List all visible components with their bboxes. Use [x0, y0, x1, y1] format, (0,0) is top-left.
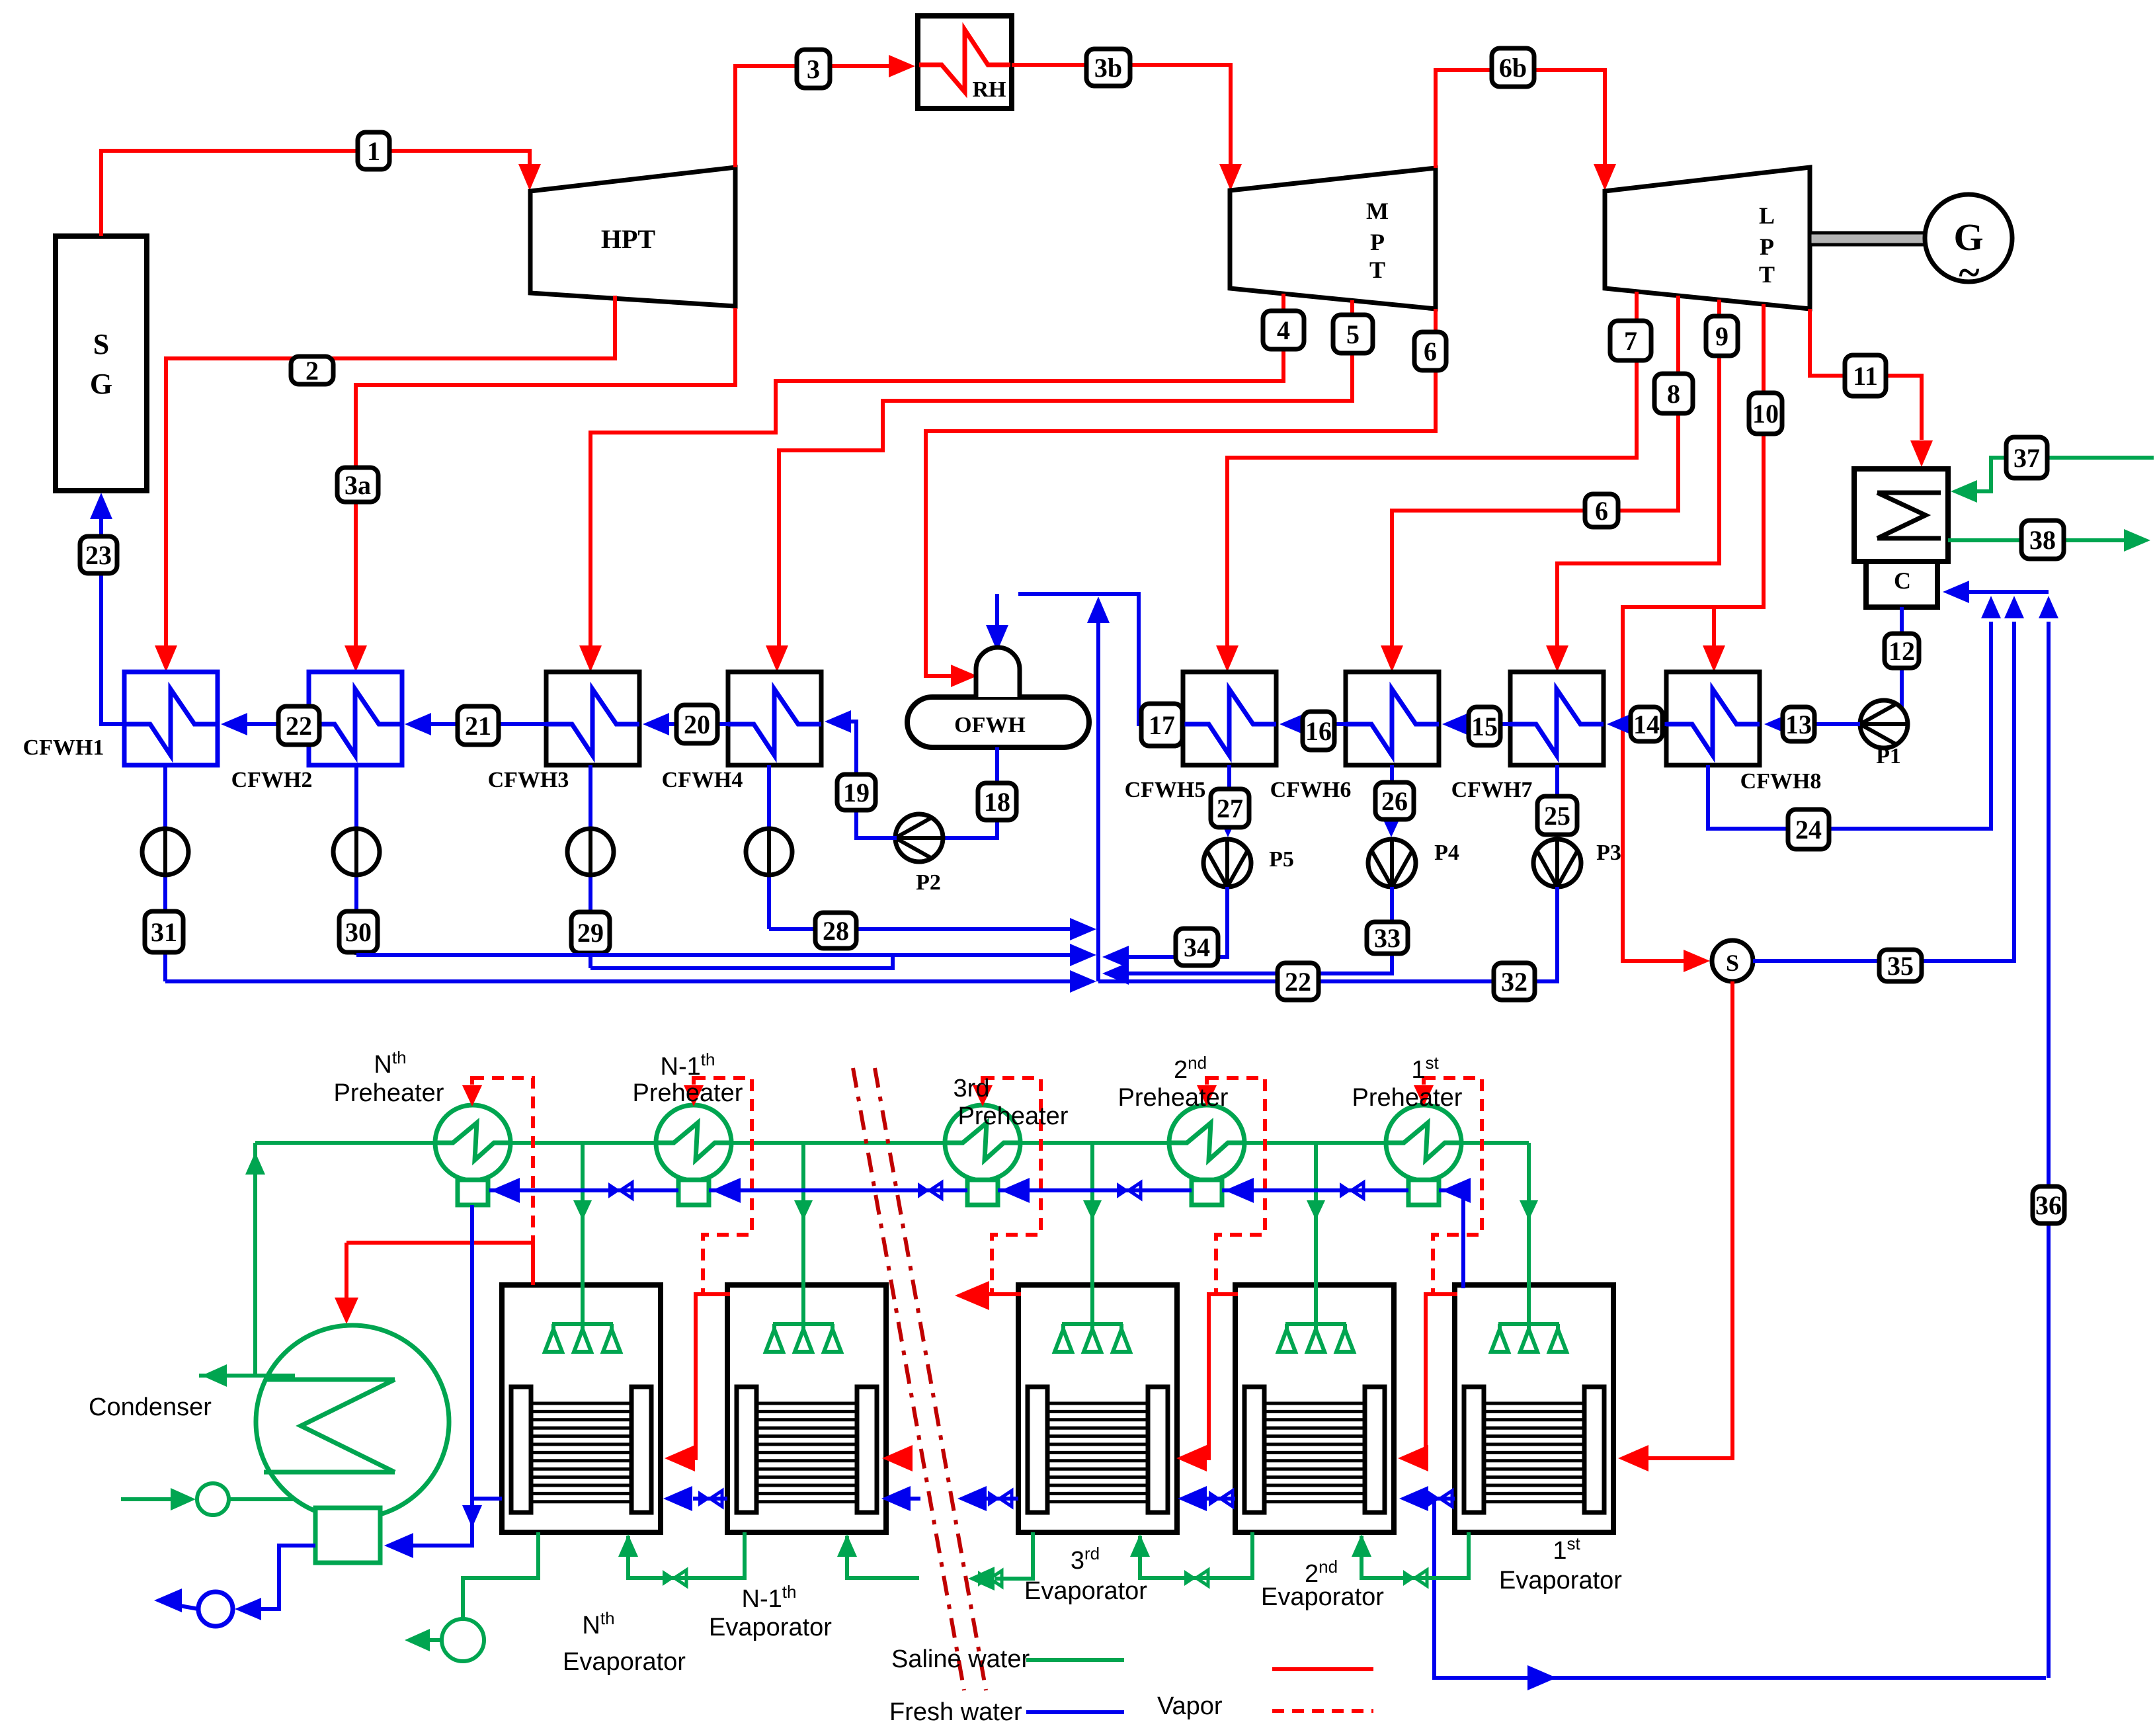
label 3rd Preheater [954, 1075, 1069, 1130]
valve fresh water header [918, 1182, 942, 1198]
svg-text:S: S [1726, 950, 1739, 976]
svg-text:13: 13 [1785, 710, 1812, 739]
svg-text:P3: P3 [1596, 841, 1621, 865]
label 10 [1749, 393, 1782, 434]
wire saline feed into Nth evaporator [545, 1143, 620, 1352]
arrow fresh water into N-1th preheater foot [712, 1178, 741, 1203]
svg-text:18: 18 [984, 787, 1010, 817]
splitter S [1712, 940, 1753, 981]
wire stream 16 CFWH6 to CFWH5 [1280, 713, 1346, 735]
pump P5 [1203, 839, 1294, 887]
vapor arrow into N-1th preheater [684, 1076, 704, 1106]
svg-text:P2: P2 [916, 870, 941, 895]
label 16 [1303, 712, 1334, 750]
svg-text:OFWH: OFWH [954, 713, 1026, 737]
svg-text:6: 6 [1595, 496, 1608, 526]
wire stream 7 LPT to CFWH5 [1216, 292, 1637, 672]
steam generator SG [56, 236, 147, 491]
wire stream 38 seawater out [1948, 529, 2150, 552]
svg-text:6: 6 [1424, 337, 1437, 366]
vapor dashed loop 2nd preheater [1207, 1078, 1265, 1294]
label 7 [1610, 321, 1651, 360]
svg-text:3rd: 3rd [954, 1075, 990, 1102]
label 6 [1414, 332, 1446, 370]
evaporator N-1th vessel [727, 1285, 886, 1532]
svg-text:RH: RH [973, 77, 1006, 102]
label Condenser [89, 1393, 212, 1421]
label 4 [1263, 311, 1304, 349]
svg-text:29: 29 [577, 918, 604, 948]
svg-text:CFWH5: CFWH5 [1125, 778, 1206, 802]
preheater Nth circle [435, 1105, 510, 1205]
condenser foot [315, 1508, 380, 1563]
svg-text:11: 11 [1853, 361, 1878, 391]
label 3a [337, 468, 378, 502]
heater CFWH2 [231, 672, 402, 792]
svg-text:P1: P1 [1876, 744, 1901, 768]
label 31 [145, 911, 183, 952]
svg-text:30: 30 [345, 917, 372, 947]
label 22 lower [1278, 963, 1319, 1000]
wire stream 35 S to condenser [1753, 596, 2024, 961]
label 3b [1086, 49, 1130, 86]
wire stream 11 LPT to condenser [1810, 309, 1933, 467]
vapor arrow into 2nd preheater [1197, 1076, 1217, 1106]
reheater RH [918, 16, 1012, 108]
valve fresh water header [1340, 1182, 1363, 1198]
wire vapor into next evaporator from N-1th preheater [665, 1294, 730, 1471]
preheater 1st circle [1386, 1105, 1461, 1205]
svg-text:Saline water: Saline water [891, 1645, 1030, 1673]
vapor arrow into Nth preheater [462, 1076, 482, 1106]
evaporator 2nd vessel [1235, 1285, 1394, 1532]
vapor arrow into 3rd preheater [973, 1076, 993, 1106]
svg-text:27: 27 [1217, 794, 1243, 823]
svg-text:P: P [1760, 233, 1774, 260]
heater CFWH1 [23, 672, 218, 765]
label 1st Preheater [1352, 1053, 1463, 1112]
wire OFWH top feed [986, 594, 1008, 651]
legend saline water [891, 1645, 1124, 1673]
heater CFWH7 [1451, 672, 1604, 802]
svg-text:Evaporator: Evaporator [1261, 1583, 1384, 1611]
svg-text:Vapor: Vapor [1157, 1692, 1223, 1720]
wire fresh water cascade 1st to 2nd [1399, 1486, 1455, 1511]
svg-text:S: S [93, 328, 109, 360]
label 3rd Evaporator [1024, 1544, 1147, 1605]
svg-text:21: 21 [465, 711, 491, 741]
evaporator 3rd vessel [1018, 1285, 1177, 1532]
label 19 [837, 774, 875, 810]
junction riser to OFWH line [1087, 597, 1110, 981]
wire stream 31 bus [165, 970, 1096, 993]
pump P1 [1860, 700, 1908, 768]
svg-text:10: 10 [1752, 399, 1779, 429]
wire stream 30 bus [356, 944, 1096, 966]
svg-text:31: 31 [151, 917, 177, 947]
wire stream 20 CFWH4 to CFWH3 [643, 713, 728, 735]
svg-text:7: 7 [1624, 326, 1637, 356]
svg-text:33: 33 [1374, 923, 1401, 953]
svg-text:C: C [1894, 567, 1911, 594]
wire vapor into next evaporator from 2nd preheater [1176, 1294, 1238, 1471]
vapor dashed loop 3rd preheater [983, 1078, 1041, 1294]
svg-text:28: 28 [823, 916, 849, 946]
wire stream 3a HPT to CFWH2 [345, 308, 735, 672]
label 11 [1845, 355, 1886, 396]
label 6 second [1585, 494, 1618, 527]
heater CFWH6 [1270, 672, 1439, 802]
wire vapor Nth evap riser and condenser feed [335, 1241, 533, 1324]
label 15 [1469, 707, 1500, 745]
label 2nd Preheater [1118, 1053, 1229, 1112]
wire stream 27 CFWH5 drain [1220, 765, 1236, 837]
condenser C box [1866, 561, 1937, 607]
svg-text:CFWH8: CFWH8 [1740, 769, 1822, 794]
svg-text:CFWH4: CFWH4 [662, 768, 743, 792]
label 27 [1211, 789, 1249, 827]
turbine LPT [1605, 167, 1810, 309]
wire vapor 3rd preheater to break [955, 1281, 1021, 1310]
svg-text:3b: 3b [1094, 53, 1122, 83]
drain CFWH1 valve [142, 765, 188, 981]
svg-text:Preheater: Preheater [334, 1079, 444, 1107]
svg-text:T: T [1369, 257, 1385, 283]
svg-text:38: 38 [2029, 525, 2056, 555]
wire brine 3rd evap to break [968, 1532, 1033, 1591]
svg-text:22: 22 [1285, 967, 1311, 997]
svg-text:35: 35 [1887, 951, 1914, 981]
wire stream 6 MPT to OFWH [926, 309, 1436, 687]
label 33 [1367, 922, 1408, 954]
wire stream 6b MPT to LPT [1436, 70, 1616, 190]
drain CFWH4 valve [746, 765, 792, 929]
svg-text:P4: P4 [1434, 841, 1459, 865]
wire stream 34 P5 to junction [1102, 887, 1227, 968]
label 17 [1141, 704, 1182, 746]
svg-text:15: 15 [1471, 712, 1498, 741]
wire stream 3b RH to MPT [1012, 65, 1242, 190]
label 38 [2021, 520, 2064, 559]
label 1st Evaporator [1499, 1534, 1622, 1594]
svg-text:Preheater: Preheater [633, 1079, 743, 1107]
label Nth Preheater [334, 1048, 444, 1107]
drain CFWH2 valve [333, 765, 380, 955]
svg-text:P5: P5 [1269, 847, 1294, 872]
svg-text:Evaporator: Evaporator [1499, 1567, 1622, 1594]
wire stream 1 SG to HPT [101, 151, 541, 236]
wire stream 18 OFWH to P2 [942, 747, 997, 838]
svg-text:Evaporator: Evaporator [563, 1648, 686, 1676]
wire stream 8 LPT to CFWH6 [1381, 296, 1678, 672]
heater CFWH8 [1666, 672, 1821, 794]
label 18 [978, 783, 1016, 820]
wire brine N-1th to Nth evap [618, 1532, 745, 1586]
svg-text:HPT: HPT [601, 224, 656, 254]
svg-text:8: 8 [1667, 379, 1680, 409]
wire fresh water cascade N-1th to Nth [663, 1486, 727, 1511]
label 26 [1375, 782, 1414, 819]
wire condenser coolant out and recycle [199, 1143, 295, 1387]
condenser hotwell box [1854, 469, 1948, 561]
label 36 [2033, 1186, 2064, 1223]
svg-text:Evaporator: Evaporator [709, 1614, 832, 1641]
label 3 [797, 50, 830, 88]
label 1 [358, 132, 389, 169]
diagram break lines [853, 1068, 986, 1690]
svg-text:19: 19 [843, 778, 870, 807]
svg-text:12: 12 [1889, 636, 1915, 666]
label 34 [1176, 929, 1218, 966]
label 8 [1654, 374, 1693, 413]
heater CFWH5 [1125, 672, 1276, 802]
label 25 [1537, 796, 1577, 835]
svg-text:5: 5 [1346, 319, 1360, 349]
wire stream 9 LPT to CFWH7 [1546, 300, 1719, 672]
wire saline feed into N-1th evaporator [766, 1143, 841, 1352]
svg-text:34: 34 [1184, 932, 1210, 962]
label 37 [2006, 437, 2047, 478]
condenser MED vessel [256, 1325, 449, 1518]
wire stream 33 P4 to junction [1102, 887, 1392, 985]
label 24 [1788, 809, 1829, 849]
wire stream 19 P2 to CFWH4 [825, 710, 897, 838]
label 14 [1631, 707, 1662, 741]
svg-text:6b: 6b [1499, 53, 1527, 83]
label N-1th Preheater [633, 1050, 743, 1107]
turbine MPT [1230, 168, 1436, 309]
wire stream 37 seawater in [1951, 458, 2154, 503]
svg-text:22: 22 [286, 711, 312, 741]
wire saline main header [255, 1141, 1529, 1145]
svg-text:Preheater: Preheater [1118, 1084, 1229, 1112]
wire stream 5 MPT to CFWH4 [766, 300, 1352, 672]
label 20 [676, 705, 717, 743]
label 2nd Evaporator [1261, 1557, 1384, 1611]
svg-text:3: 3 [807, 54, 820, 84]
arrow fresh water into 3rd preheater foot [1000, 1178, 1030, 1203]
wire fresh water preheater header [489, 1190, 1463, 1288]
wire brine 1st to 2nd evap [1352, 1532, 1469, 1586]
svg-text:36: 36 [2035, 1190, 2062, 1220]
label 32 [1494, 963, 1535, 1000]
pump P3 [1533, 839, 1621, 887]
svg-text:CFWH7: CFWH7 [1451, 778, 1533, 802]
svg-text:17: 17 [1149, 710, 1175, 740]
svg-text:CFWH6: CFWH6 [1270, 778, 1352, 802]
arrow fresh water into Nth preheater foot [491, 1178, 520, 1203]
label 35 [1879, 950, 1922, 981]
label 9 [1706, 316, 1738, 356]
svg-text:T: T [1759, 261, 1775, 288]
evaporator Nth vessel [502, 1285, 661, 1532]
preheater N-1th circle [656, 1105, 731, 1205]
wire vapor into N-1th evaporator from break [882, 1445, 913, 1471]
wire stream 32 P3 to junction [1098, 887, 1557, 981]
svg-text:~: ~ [1959, 251, 1979, 294]
wire saline feed into 3rd evaporator [1055, 1143, 1130, 1352]
label 5 [1333, 315, 1373, 353]
svg-text:Condenser: Condenser [89, 1393, 212, 1421]
label 13 [1783, 707, 1814, 741]
label 28 [815, 913, 856, 948]
vapor dashed loop Nth preheater [472, 1078, 533, 1243]
wire stream 17 CFWH5 to OFWH [1018, 594, 1183, 724]
svg-text:Preheater: Preheater [958, 1102, 1069, 1130]
svg-text:1: 1 [367, 136, 380, 166]
svg-text:Fresh water: Fresh water [889, 1698, 1022, 1726]
wire brine break to N-1th evap [837, 1534, 919, 1578]
label 22 upper [278, 706, 319, 745]
svg-text:Evaporator: Evaporator [1024, 1577, 1147, 1605]
label 29 [571, 912, 610, 953]
svg-text:Preheater: Preheater [1352, 1084, 1463, 1112]
valve fresh water header [1117, 1182, 1141, 1198]
preheater 3rd circle [945, 1105, 1020, 1205]
pump P2 [895, 814, 943, 895]
svg-text:23: 23 [85, 540, 112, 570]
label 30 [339, 911, 378, 952]
wire vapor into next evaporator from 1st preheater [1398, 1294, 1457, 1471]
feedwater tank OFWH [907, 647, 1089, 747]
generator G [1925, 194, 2012, 294]
wire fresh water Nth preheater foot downpipe [462, 1205, 482, 1528]
label 2 [291, 356, 333, 386]
svg-text:14: 14 [1633, 710, 1660, 739]
wire fresh water cascade break to N-1th [881, 1486, 920, 1511]
svg-text:16: 16 [1305, 716, 1332, 746]
label 21 [458, 706, 499, 745]
wire stream 22 CFWH2 to CFWH1 [221, 713, 309, 735]
wire saline feed into 2nd evaporator [1278, 1143, 1354, 1352]
legend vapor solid line [1272, 1667, 1373, 1671]
wire brine blowdown Nth evap [405, 1532, 538, 1661]
svg-text:20: 20 [684, 710, 710, 739]
wire stream 3 HPT to RH [735, 55, 915, 167]
arrow fresh water into 1st preheater foot [1442, 1178, 1471, 1203]
svg-text:L: L [1759, 202, 1775, 229]
wire stream 12 C to P1 [1902, 607, 1908, 724]
label N-1th Evaporator [709, 1582, 832, 1641]
pump P4 [1368, 839, 1459, 887]
wire fresh water cascade 3rd to break [957, 1486, 1018, 1511]
wire stream 26 CFWH6 drain [1383, 765, 1399, 837]
svg-text:26: 26 [1381, 786, 1408, 816]
wire stream 4 MPT to CFWH3 [579, 294, 1283, 672]
svg-text:9: 9 [1715, 321, 1728, 351]
svg-text:25: 25 [1544, 801, 1570, 831]
wire fresh water cascade 2nd to 3rd [1178, 1486, 1235, 1511]
wire saline feed into 1st evaporator [1491, 1143, 1566, 1352]
wire stream 21 CFWH3 to CFWH2 [405, 713, 546, 735]
wire condenser makeup header [1943, 581, 2049, 603]
turbine HPT [530, 167, 735, 306]
arrow fresh water into 2nd preheater foot [1225, 1178, 1254, 1203]
svg-text:CFWH2: CFWH2 [231, 768, 313, 792]
wire stream 25 CFWH7 drain [1549, 765, 1565, 837]
wire stream 2 HPT to CFWH1 [155, 296, 615, 672]
heater CFWH3 [488, 672, 639, 792]
legend vapor [1157, 1692, 1223, 1720]
legend fresh water [889, 1698, 1124, 1726]
wire stream 14 CFWH8 to CFWH7 [1607, 713, 1666, 735]
wire stream 13 P1 to CFWH8 [1764, 713, 1860, 735]
svg-text:3a: 3a [345, 470, 371, 500]
svg-text:24: 24 [1795, 815, 1822, 845]
wire seawater intake [121, 1483, 295, 1515]
svg-text:37: 37 [2013, 443, 2040, 473]
wire stream 24 CFWH8 drain [1708, 596, 2001, 829]
svg-text:2: 2 [305, 356, 319, 386]
wire stream 28 [769, 918, 1096, 940]
vapor dashed loop 1st preheater [1424, 1078, 1482, 1294]
wire stream 15 CFWH7 to CFWH6 [1442, 713, 1510, 735]
wire distillate product line [1434, 1499, 2046, 1690]
wire fresh water Nth evap to condenser [384, 1499, 502, 1558]
svg-text:G: G [90, 368, 112, 400]
svg-text:CFWH1: CFWH1 [23, 735, 104, 760]
svg-text:CFWH3: CFWH3 [488, 768, 569, 792]
valve fresh water header [608, 1182, 632, 1198]
wire stream 29 bus [590, 955, 893, 968]
preheater 2nd circle [1169, 1105, 1244, 1205]
evaporator 1st vessel [1455, 1285, 1613, 1532]
vapor arrow into 1st preheater [1414, 1076, 1434, 1106]
svg-text:P: P [1370, 229, 1385, 255]
wire distillate out of condenser [154, 1546, 315, 1626]
svg-text:4: 4 [1277, 315, 1290, 345]
drain CFWH3 valve [567, 765, 614, 968]
heater CFWH4 [662, 672, 821, 792]
label Nth Evaporator [563, 1608, 686, 1676]
svg-text:32: 32 [1501, 967, 1527, 997]
label 23 [80, 536, 117, 573]
legend vapor dashed line [1272, 1709, 1373, 1713]
wire brine 2nd to 3rd evap [1130, 1532, 1252, 1586]
label 6b [1492, 48, 1534, 87]
svg-text:M: M [1366, 198, 1389, 224]
shaft LPT to generator [1810, 233, 1925, 245]
vapor dashed loop N-1th preheater [694, 1078, 752, 1294]
label 12 [1885, 634, 1919, 668]
wire stream 10 LPT to CFWH8 and S [1623, 304, 1764, 972]
wire S to first evaporator [1618, 981, 1732, 1471]
wire stream 36 riser [2039, 596, 2058, 1678]
wire stream 23 CFWH1 to SG [90, 493, 124, 724]
